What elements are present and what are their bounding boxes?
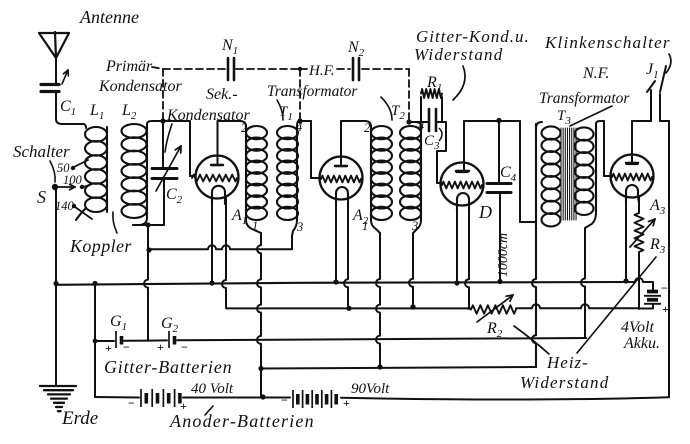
- svg-text:N1: N1: [221, 37, 238, 57]
- svg-text:−: −: [281, 393, 288, 407]
- svg-text:Widerstand: Widerstand: [520, 373, 609, 392]
- svg-text:Kondensator: Kondensator: [166, 107, 250, 124]
- svg-text:A3: A3: [649, 197, 666, 217]
- svg-text:L2: L2: [121, 102, 137, 122]
- svg-text:1000cm: 1000cm: [496, 233, 511, 277]
- svg-text:−: −: [661, 281, 668, 295]
- svg-text:A1: A1: [231, 207, 247, 227]
- svg-text:Widerstand: Widerstand: [414, 45, 503, 64]
- svg-text:T1: T1: [279, 104, 293, 123]
- svg-text:4: 4: [296, 120, 302, 134]
- svg-text:Schalter: Schalter: [13, 142, 70, 161]
- svg-text:Gitter-Batterien: Gitter-Batterien: [104, 357, 232, 377]
- svg-text:R3: R3: [649, 236, 666, 256]
- svg-text:−: −: [181, 340, 188, 354]
- svg-text:D: D: [478, 202, 492, 222]
- svg-text:L1: L1: [89, 102, 104, 122]
- svg-text:C4: C4: [500, 164, 517, 184]
- svg-text:T2: T2: [391, 103, 405, 122]
- svg-text:S: S: [37, 187, 46, 207]
- svg-text:Transformator: Transformator: [539, 90, 630, 107]
- svg-text:3: 3: [296, 220, 303, 234]
- svg-text:+: +: [105, 341, 112, 355]
- svg-text:40 Volt: 40 Volt: [191, 381, 234, 397]
- svg-text:1: 1: [252, 219, 258, 233]
- svg-text:Sek.-: Sek.-: [206, 86, 238, 103]
- svg-text:3: 3: [411, 219, 418, 233]
- svg-text:C2: C2: [166, 186, 183, 206]
- svg-text:N2: N2: [347, 39, 365, 59]
- svg-text:Anoder-Batterien: Anoder-Batterien: [169, 411, 315, 431]
- svg-text:2: 2: [364, 121, 370, 135]
- svg-text:4Volt: 4Volt: [621, 319, 654, 336]
- svg-text:Antenne: Antenne: [79, 7, 139, 27]
- svg-text:T3: T3: [557, 108, 571, 127]
- svg-text:Klinkenschalter: Klinkenschalter: [544, 33, 671, 52]
- svg-text:N.F.: N.F.: [582, 65, 609, 82]
- svg-text:+: +: [343, 396, 350, 410]
- svg-text:Kondensator: Kondensator: [98, 78, 182, 95]
- svg-text:Heiz-: Heiz-: [546, 353, 589, 372]
- svg-text:+: +: [662, 302, 669, 316]
- svg-text:Gitter-Kond.u.: Gitter-Kond.u.: [416, 27, 530, 46]
- svg-text:−: −: [123, 340, 130, 354]
- svg-text:Koppler: Koppler: [69, 236, 132, 256]
- svg-text:Primär-: Primär-: [105, 58, 157, 75]
- svg-text:Transformator: Transformator: [267, 83, 358, 100]
- svg-text:2: 2: [241, 121, 247, 135]
- svg-text:100: 100: [63, 173, 83, 187]
- svg-text:R2: R2: [486, 320, 503, 340]
- svg-text:−: −: [128, 396, 135, 410]
- svg-text:Erde: Erde: [61, 408, 98, 429]
- svg-text:4: 4: [418, 119, 424, 133]
- svg-text:1: 1: [362, 219, 368, 233]
- svg-text:C1: C1: [60, 98, 76, 118]
- svg-text:H.F.: H.F.: [308, 63, 335, 79]
- svg-text:90Volt: 90Volt: [351, 381, 390, 397]
- svg-text:Akku.: Akku.: [623, 335, 660, 352]
- svg-text:140: 140: [55, 199, 75, 213]
- svg-text:G1: G1: [110, 313, 127, 333]
- svg-text:+: +: [157, 340, 164, 354]
- svg-text:J1: J1: [646, 61, 659, 81]
- svg-text:+: +: [180, 399, 187, 413]
- svg-text:C3: C3: [424, 133, 440, 152]
